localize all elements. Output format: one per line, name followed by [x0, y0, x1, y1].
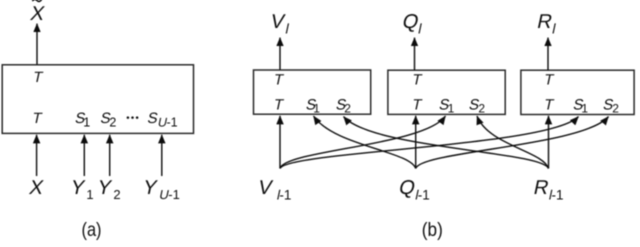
svg-text:V: V	[269, 11, 287, 33]
svg-text:2: 2	[478, 101, 485, 115]
svg-text:(b): (b)	[422, 219, 443, 241]
svg-text:T: T	[543, 97, 556, 114]
svg-text:1: 1	[313, 101, 320, 115]
svg-text:-1: -1	[552, 187, 564, 202]
svg-text:T: T	[543, 72, 556, 89]
svg-text:T: T	[272, 97, 285, 114]
svg-text:l: l	[284, 21, 290, 37]
svg-text:Y: Y	[141, 177, 159, 199]
svg-text:1: 1	[86, 187, 93, 202]
svg-text:X: X	[27, 177, 45, 199]
svg-text:(a): (a)	[82, 219, 102, 241]
svg-text:V: V	[256, 177, 274, 199]
svg-text:1: 1	[581, 101, 588, 115]
svg-text:T: T	[31, 110, 44, 127]
svg-text:-1: -1	[168, 187, 180, 202]
svg-text:Y: Y	[95, 177, 113, 199]
svg-text:T: T	[411, 97, 424, 114]
svg-text:R: R	[532, 177, 551, 199]
svg-text:T: T	[272, 72, 285, 89]
svg-text:2: 2	[109, 116, 116, 130]
svg-text:l: l	[551, 21, 557, 37]
svg-text:-1: -1	[167, 116, 178, 130]
svg-text:2: 2	[344, 101, 351, 115]
svg-text:T: T	[411, 72, 424, 89]
svg-text:1: 1	[448, 101, 455, 115]
svg-text:1: 1	[83, 116, 90, 130]
svg-text:2: 2	[113, 187, 120, 202]
svg-text:X: X	[28, 3, 46, 25]
svg-text:T: T	[32, 69, 45, 86]
svg-text:Y: Y	[69, 177, 87, 199]
svg-text:-1: -1	[279, 187, 291, 202]
svg-text:2: 2	[612, 101, 619, 115]
svg-text:-1: -1	[418, 187, 430, 202]
svg-text:Q: Q	[397, 177, 417, 199]
